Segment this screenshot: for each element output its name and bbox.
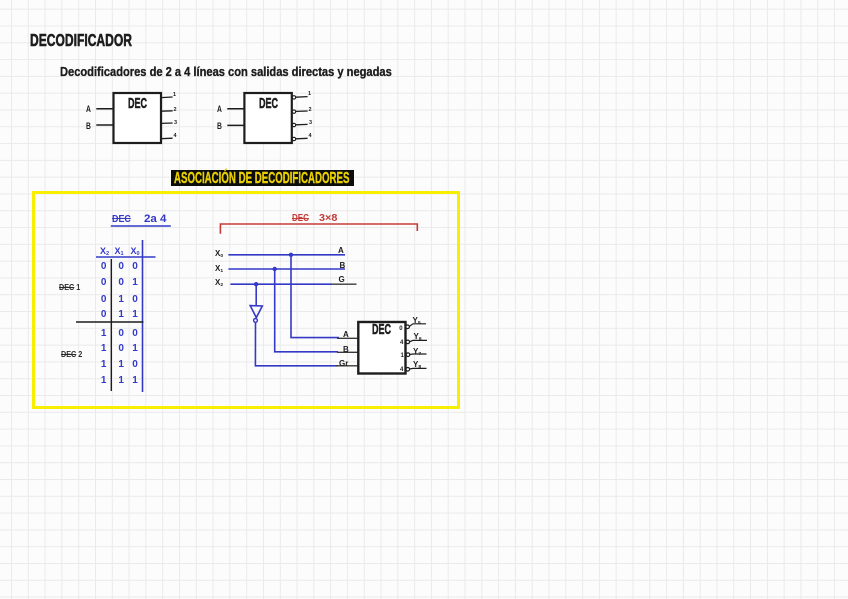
decoder U3 output bubble Y8 <box>406 368 410 372</box>
decoder U3 pin number 4b <box>400 367 403 373</box>
input A black segment <box>337 337 359 339</box>
table digit r1c1 <box>101 261 107 272</box>
decoder U1 input wire A <box>96 108 113 110</box>
decoder U3 pin number 1 <box>401 353 404 359</box>
net label B top <box>340 261 346 270</box>
table digit r1c2 <box>118 261 124 272</box>
junction dot X0 <box>289 253 293 257</box>
wire X2 to inverter <box>255 284 257 305</box>
decoder U3 output bubble Y6 <box>406 340 410 344</box>
table digit r2c3 <box>132 277 138 288</box>
table digit r7c2 <box>118 359 124 370</box>
decoder U1 output label 2 <box>174 107 177 113</box>
table digit r2c1 <box>101 277 107 288</box>
output label Y6 <box>414 332 422 341</box>
decoder U2 output wire 2 <box>296 110 308 112</box>
table header underline <box>96 256 156 258</box>
node label X2 <box>215 278 223 287</box>
decoder U1 output label 3 <box>174 120 177 126</box>
decoder U1 input wire B <box>96 124 113 126</box>
table header X0 <box>131 246 140 256</box>
decoder U3 pin label A <box>343 330 349 339</box>
yellow frame box <box>32 191 460 409</box>
junction dot X2 <box>254 282 258 286</box>
table title underline <box>111 225 171 227</box>
decoder U3 output bubble Y5 <box>406 325 410 329</box>
title DECODIFICADOR <box>30 30 132 51</box>
table digit r6c1 <box>101 343 107 354</box>
decoder U1 pin label B <box>86 121 91 131</box>
node label X0 <box>215 249 223 258</box>
decoder U3 output bubble Y7 <box>406 353 410 357</box>
decoder U2 pin label A <box>217 104 222 114</box>
table digit r4c2 <box>118 309 124 320</box>
heading highlight ASOCIACION DE DECODIFICADORES <box>171 170 354 186</box>
decoder U2 input wire B <box>227 124 244 126</box>
net label G top <box>339 275 345 284</box>
table row labels DEC1 <box>59 282 80 292</box>
decoder U2 output wire 1 <box>296 96 308 99</box>
red label DEC <box>292 213 309 224</box>
decoder U2 output wire 3 <box>296 123 308 125</box>
subtitle <box>60 64 392 79</box>
table digit r8c2 <box>118 375 124 386</box>
table digit r4c1 <box>101 309 107 320</box>
decoder U1 output wire 1 <box>161 96 173 99</box>
table digit r5c1 <box>101 328 107 339</box>
decoder U3 pin label B <box>343 345 349 354</box>
decoder U2 output bubble 4 <box>292 137 295 140</box>
output label Y7 <box>413 347 421 356</box>
inverter triangle <box>250 306 262 318</box>
table digit r6c2 <box>118 343 124 354</box>
table digit r6c3 <box>132 343 138 354</box>
output label Y8 <box>413 360 421 369</box>
table header X2 <box>100 246 109 256</box>
wire X2 horizontal <box>230 283 332 285</box>
table vertical rule blue <box>142 240 144 392</box>
decoder U2 output bubble 3 <box>292 123 295 126</box>
decoder U2 box <box>244 93 291 143</box>
inverter bubble <box>254 319 258 323</box>
table title DEC <box>112 213 131 225</box>
output label Y5 <box>413 316 421 325</box>
table digit r7c1 <box>101 359 107 370</box>
output wire Y6 <box>410 340 427 341</box>
table row labels DEC2 <box>61 349 82 359</box>
decoder U2 output label 3 <box>309 120 312 126</box>
table digit r8c1 <box>101 375 107 386</box>
wire inverter to Gr <box>255 323 338 366</box>
table digit r5c3 <box>132 328 138 339</box>
decoder U2 output wire 4 <box>296 137 308 140</box>
output wire Y5 <box>409 324 426 327</box>
table digit r5c2 <box>118 328 124 339</box>
decoder U1 pin label A <box>86 104 91 114</box>
decoder U3 pin number 4 <box>400 340 403 346</box>
decoder U2 input wire A <box>227 108 244 110</box>
red label 3x8 <box>319 213 337 224</box>
decoder U1 output label 1 <box>173 92 176 98</box>
decoder U2 output label 1 <box>308 91 311 97</box>
decoder U1 box <box>114 93 162 143</box>
decoder U2 output label 4 <box>309 133 312 139</box>
decoder U3 box <box>358 322 405 374</box>
decoder U1 output wire 3 <box>161 122 173 124</box>
decoder U2 output bubble 1 <box>292 96 295 99</box>
decoder U3 pin label Gr <box>339 359 348 368</box>
table digit r1c3 <box>132 261 138 272</box>
decoder U2 label DEC <box>259 96 278 112</box>
table digit r2c2 <box>118 277 124 288</box>
table digit r8c3 <box>132 375 138 386</box>
junction dot X1 <box>273 267 277 271</box>
wire X0 vertical drop <box>291 255 339 338</box>
decoder U2 output label 2 <box>309 107 312 113</box>
table digit r7c3 <box>132 359 138 370</box>
decoder U3 label DEC <box>372 322 391 338</box>
wire X2 to G black segment <box>332 283 357 285</box>
table digit r3c2 <box>118 294 124 305</box>
decoder U2 pin label B <box>217 121 222 131</box>
wire X1 horizontal <box>228 268 345 270</box>
decoder U2 output bubble 2 <box>292 110 295 113</box>
table digit r4c3 <box>132 309 138 320</box>
decoder U1 label DEC <box>128 96 147 112</box>
table digit r3c3 <box>132 294 138 305</box>
red bracket DEC 3x8 <box>220 224 417 234</box>
input Gr black segment <box>336 365 359 367</box>
table header X1 <box>115 246 124 256</box>
wire X1 vertical drop <box>275 269 338 352</box>
output wire Y7 <box>410 353 427 356</box>
table mid separator black <box>76 321 144 323</box>
decoder U1 output wire 4 <box>161 137 173 140</box>
input B black segment <box>337 351 359 353</box>
wire X0 horizontal <box>228 254 345 256</box>
table vertical rule black <box>110 259 112 391</box>
decoder U1 output label 4 <box>174 133 177 139</box>
decoder U1 output wire 2 <box>161 110 173 112</box>
table digit r3c1 <box>101 294 107 305</box>
table title 2a4 <box>144 213 166 225</box>
decoder U3 pin number 0 <box>399 326 402 332</box>
output wire Y8 <box>410 367 427 370</box>
net label A top <box>338 246 344 255</box>
node label X1 <box>215 264 223 273</box>
